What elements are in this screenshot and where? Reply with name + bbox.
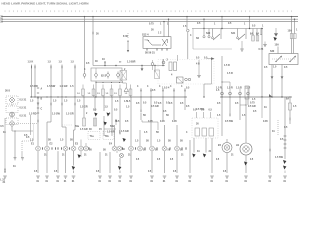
svg-text:S20: S20 — [206, 32, 211, 35]
svg-text:1.5 RD: 1.5 RD — [30, 85, 38, 88]
svg-text:0.5 GR: 0.5 GR — [248, 105, 256, 108]
svg-text:1.5 GR: 1.5 GR — [80, 106, 88, 109]
svg-text:15A: 15A — [275, 44, 280, 47]
svg-text:1.5 R: 1.5 R — [245, 87, 251, 90]
svg-text:1.5 SW: 1.5 SW — [47, 85, 56, 88]
svg-text:0.5 SW: 0.5 SW — [225, 120, 234, 123]
svg-text:0.75: 0.75 — [259, 48, 264, 51]
svg-text:1.5 GR: 1.5 GR — [60, 85, 68, 88]
svg-text:1.5 B/R: 1.5 B/R — [127, 61, 136, 64]
svg-text:56a: 56a — [75, 125, 80, 128]
svg-text:L 31: L 31 — [0, 179, 5, 182]
svg-text:1.5 GR: 1.5 GR — [80, 128, 88, 131]
svg-text:1.5 GR: 1.5 GR — [107, 131, 115, 134]
svg-text:0.5 31: 0.5 31 — [20, 107, 27, 110]
svg-text:0.75: 0.75 — [149, 23, 154, 26]
svg-text:1.5 GR: 1.5 GR — [121, 130, 129, 133]
svg-text:1.5: 1.5 — [70, 85, 74, 88]
svg-text:T1a: T1a — [90, 135, 95, 138]
svg-text:0.35: 0.35 — [148, 120, 153, 123]
svg-text:S12: S12 — [145, 39, 148, 41]
svg-text:15A: 15A — [288, 30, 293, 33]
svg-text:8 30: 8 30 — [123, 35, 128, 38]
svg-text:58 56 31: 58 56 31 — [145, 52, 155, 55]
svg-text:1.5 SW: 1.5 SW — [52, 113, 61, 116]
svg-text:8A: 8A — [250, 33, 253, 36]
svg-text:1.5 SW: 1.5 SW — [275, 156, 284, 159]
svg-text:4 B: 4 B — [196, 63, 200, 66]
svg-text:0.35: 0.35 — [160, 120, 165, 123]
svg-text:HEAD LAMP, PARKING LIGHT, TURN: HEAD LAMP, PARKING LIGHT, TURN SIGNAL LI… — [2, 1, 90, 5]
svg-text:8A: 8A — [286, 98, 289, 101]
svg-text:1.5 R: 1.5 R — [224, 64, 230, 67]
svg-text:1.5 RD: 1.5 RD — [29, 113, 37, 116]
svg-text:0.35: 0.35 — [263, 120, 268, 123]
svg-text:1.5 R: 1.5 R — [227, 72, 233, 75]
svg-text:1.5 K: 1.5 K — [28, 61, 34, 64]
svg-text:0.75: 0.75 — [250, 102, 255, 105]
svg-text:82 S: 82 S — [101, 75, 106, 78]
svg-text:0.5 SW: 0.5 SW — [196, 108, 205, 111]
svg-text:1.5 R: 1.5 R — [216, 87, 222, 90]
svg-text:1.5 R: 1.5 R — [236, 87, 242, 90]
svg-text:30 8: 30 8 — [5, 90, 10, 93]
svg-text:S21: S21 — [231, 32, 236, 35]
svg-text:S30: S30 — [270, 50, 275, 53]
svg-text:0.35: 0.35 — [172, 120, 177, 123]
svg-text:0.5 31: 0.5 31 — [20, 99, 27, 102]
svg-text:T1b: T1b — [105, 135, 110, 138]
svg-text:0.5 31: 0.5 31 — [20, 115, 27, 118]
svg-text:56b: 56b — [110, 125, 115, 128]
svg-text:S12 4: S12 4 — [142, 34, 149, 37]
svg-text:1.5 GR: 1.5 GR — [66, 113, 74, 116]
svg-text:0.5 GR: 0.5 GR — [151, 105, 159, 108]
svg-text:8A: 8A — [256, 33, 259, 36]
